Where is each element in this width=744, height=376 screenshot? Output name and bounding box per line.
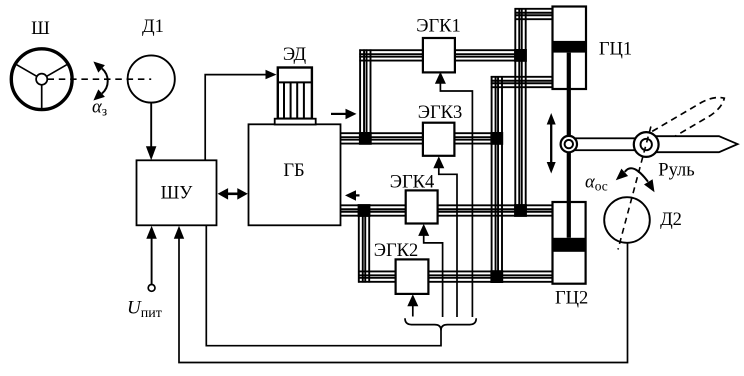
pipe GB upper port to EGK3 to bundle A (wire) [340,133,497,143]
wire ShU output to brace [206,226,441,346]
svg-text:ЭГК2: ЭГК2 [374,241,419,261]
junction bundle A / EGK3 line [490,132,503,145]
GC1 piston [553,41,587,53]
arrowhead into EGK1 [435,72,446,84]
steering wheel Sh rim [11,49,72,110]
ED winding hatch lines [284,82,304,118]
flow arrow out of GB (supply) [331,113,346,115]
svg-text:Ш: Ш [31,19,50,39]
pipe riser to EGK1 level (wire) [360,49,370,138]
svg-text:ГЦ1: ГЦ1 [599,40,632,60]
alpha_3 arc bottom head [93,89,105,100]
valve EGK3 [423,123,455,156]
GC2 piston [553,238,586,252]
svg-text:ШУ: ШУ [161,184,194,204]
double arrow left head [218,188,229,200]
piston rod GC1 to pivot [567,53,571,137]
svg-text:Д2: Д2 [660,210,682,230]
junction bundle B / EGK4 line [514,204,527,217]
pipe bundle A vertical (wire) [492,76,502,277]
ED stator divider [278,81,312,83]
wire D2 feedback to ShU [179,229,628,363]
brace gathering control wires [405,318,476,330]
svg-text:ЭГК4: ЭГК4 [390,172,435,192]
svg-text:Д1: Д1 [142,17,164,37]
wire control to EGK2 [412,297,414,317]
arrowhead into ED [266,70,277,80]
valve EGK1 [423,38,455,72]
rod end pivot [561,136,577,152]
arrowhead into EGK2 [407,294,418,306]
double arrow right head [237,188,248,200]
junction bundle A / EGK2 line [490,270,503,283]
svg-text:Руль: Руль [658,161,694,181]
flow arrow into GB (return) [356,194,360,196]
pipe GB lower port through EGK4 to GC2 top (wire) [340,205,554,215]
svg-text:ГЦ2: ГЦ2 [555,289,588,309]
piston rod pivot to GC2 [567,152,571,238]
hydraulic cylinder GC2 [553,202,586,284]
junction riser/EGK3 line [359,132,372,145]
pipe EGK2 line to GC2 bottom (wire) [358,271,554,281]
arrowhead into ShU from D2 [174,226,184,239]
double arrow between ShU and GB [225,193,240,196]
command angle arc alpha_3 [102,69,108,94]
hydraulic cylinder GC1 [553,7,587,90]
rudder stock [634,132,659,157]
alpha_oc arc right head [644,179,655,192]
pipe GC1 bottom port line (wire) [491,77,554,87]
arrowhead into EGK4 [418,224,429,236]
svg-text:ЭГК3: ЭГК3 [418,103,463,123]
rod travel arrow down head [547,162,556,174]
electric motor ED body [278,68,312,119]
dashed rudder blade rotated position [652,91,728,145]
wire ShU to ED motor [205,75,266,161]
valve EGK2 [396,259,429,294]
control unit ShU [137,160,217,225]
junction bundle B / EGK1 line [514,49,527,62]
alpha_3 arc top head [93,62,105,73]
dashed wheel shaft axis [48,78,152,80]
wire control to EGK4 [424,226,443,317]
wire control to EGK3 [439,159,457,318]
sensor D2 [604,197,650,243]
terminal circle Upit [148,285,155,292]
junction riser/EGK4 line [358,204,371,217]
svg-text:ЭГК1: ЭГК1 [416,17,461,37]
arrowhead into ShU from D1 [146,146,157,160]
svg-text:ГБ: ГБ [283,161,304,181]
pipe EGK1 supply line (wire) [359,50,520,60]
alpha_oc arc left head [616,169,628,181]
wire D1 to ShU [150,102,152,148]
valve EGK4 [406,190,438,223]
arrowhead into ShU from Upit [146,226,157,239]
tiller link [574,138,640,150]
dashed rudder axis through stock and D2 [618,127,651,250]
pipe GC1 top port line (wire) [515,9,555,19]
wheel spokes [17,65,67,109]
rod travel arrow up head [547,113,556,125]
ED base plate [275,119,316,125]
rod travel double arrow [550,121,552,166]
wire Upit supply into ShU [151,229,153,285]
sensor D1 [128,55,175,102]
pipe bundle B vertical (wire) [515,8,525,211]
wheel hub [36,74,47,85]
arrowhead into EGK3 [433,156,444,168]
wire control to EGK1 [440,75,472,318]
hydraulic unit GB [249,124,341,225]
svg-text:ЭД: ЭД [283,45,307,65]
rudder blade [650,136,738,152]
pipe riser down to EGK2 level (wire) [359,211,369,283]
feedback angle arc alpha_oc [625,168,648,181]
